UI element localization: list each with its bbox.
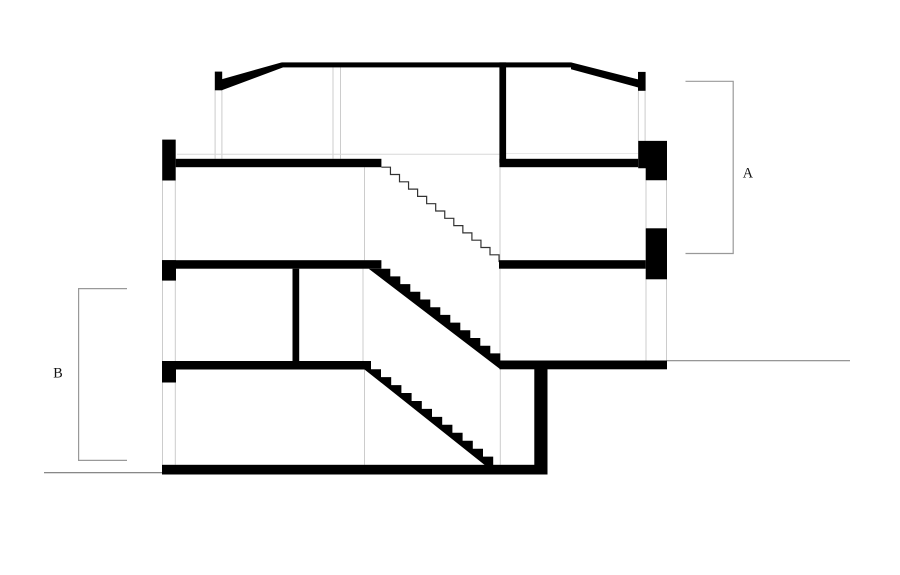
right roof parapet — [638, 72, 646, 91]
right wall pier level 3 — [646, 228, 667, 279]
wall face line right parapet outer — [637, 91, 639, 141]
lower right wall — [534, 369, 547, 475]
wall face line right parapet inner — [644, 91, 646, 141]
ground line right — [667, 360, 850, 362]
right sloped roof — [571, 62, 638, 87]
wall face lines left facade storey 2-3 — [162, 181, 164, 261]
ground floor slab — [162, 465, 548, 475]
dimension bracket B — [79, 289, 127, 461]
wall face lines left facade storey 4-ground — [162, 381, 164, 465]
left wall pier level 4 — [162, 361, 176, 383]
stairwell edge line lower flight left — [364, 370, 366, 465]
right wall pier level 2 — [638, 141, 667, 180]
window face line below right landing — [499, 369, 501, 465]
floor slab level 3 left — [162, 260, 381, 269]
left wall pier level 3 — [162, 260, 176, 280]
ceiling line top floor west room — [177, 153, 499, 155]
interior wall level 3-4 — [293, 269, 300, 361]
left wall pier level 2 — [162, 140, 176, 181]
wall face line left parapet inner — [221, 90, 223, 159]
wall face lines right facade storey 2-3 — [645, 180, 647, 228]
top floor middle wall — [499, 62, 506, 162]
projected partition wall top floor right face — [340, 67, 342, 159]
left sloped roof — [222, 62, 283, 90]
projected partition wall top floor left face — [332, 67, 334, 159]
svg-text:B: B — [53, 365, 62, 381]
lower stair flight section — [364, 369, 496, 474]
svg-text:A: A — [743, 166, 754, 182]
stairwell edge line middle flight left — [362, 269, 364, 361]
flat roof — [282, 62, 571, 67]
floor slab level 4 right — [500, 361, 668, 370]
stairwell edge line right storey 3-4 — [499, 269, 501, 361]
upper stair flight thin outline — [381, 167, 499, 262]
dimension bracket A — [686, 81, 734, 253]
ceiling line top floor east room — [506, 153, 638, 155]
floor slab level 3 right — [499, 260, 646, 269]
floor slab level 2 right — [499, 159, 638, 167]
stairwell edge line upper flight left — [364, 167, 366, 260]
floor slab level 2 left — [176, 159, 382, 167]
floor slab level 4 left — [162, 361, 371, 370]
wall face lines left facade storey 3-4 — [162, 281, 164, 361]
ground line left — [44, 472, 162, 474]
wall face lines right facade storey 3-4 — [645, 279, 647, 360]
left roof parapet — [215, 72, 222, 91]
wall face line left parapet outer — [214, 90, 216, 159]
middle stair flight section — [369, 269, 501, 370]
stairwell edge line right storey 2-3 — [499, 167, 501, 260]
